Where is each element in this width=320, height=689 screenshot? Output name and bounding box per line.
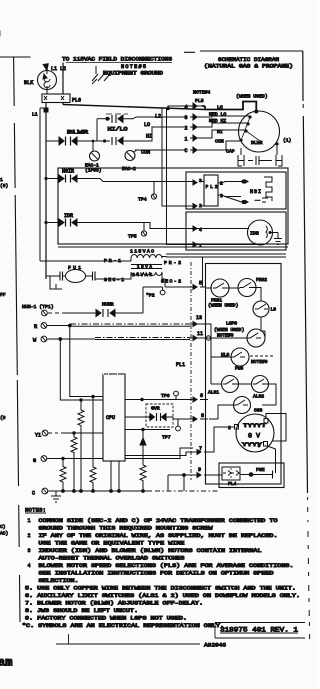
transformer TRAN primary bbox=[40, 249, 181, 267]
svg-text:G: G bbox=[33, 458, 36, 464]
svg-text:L2: L2 bbox=[155, 114, 161, 120]
pin 7 bbox=[193, 446, 214, 455]
svg-text:FRS2: FRS2 bbox=[256, 277, 267, 283]
svg-text:5. USE ONLY COPPER WIRE BETWEE: 5. USE ONLY COPPER WIRE BETWEEN THE DISC… bbox=[25, 586, 296, 592]
wire PR2/SEC2 drop bbox=[202, 257, 204, 287]
wire pin13 chain bbox=[197, 324, 231, 384]
svg-text:HI: HI bbox=[217, 129, 223, 135]
terminal C bbox=[32, 488, 48, 496]
connector PL1 boundary line bbox=[190, 262, 192, 480]
svg-text:ALS1: ALS1 bbox=[208, 390, 219, 396]
svg-text:CPU: CPU bbox=[106, 415, 115, 421]
wire pin9 lane bbox=[168, 475, 193, 491]
junction pullup row bbox=[79, 398, 82, 401]
svg-text:BLOWER MOTOR SPEED SELECTIONS: BLOWER MOTOR SPEED SELECTIONS (PLS) ARE … bbox=[39, 563, 294, 569]
svg-text:HI/LO: HI/LO bbox=[108, 127, 128, 133]
revision box bbox=[215, 623, 305, 639]
svg-text:SEE INSTALLATION INSTRUCTIONS: SEE INSTALLATION INSTRUCTIONS FOR DETAIL… bbox=[39, 571, 274, 577]
wire pin7 to GV bbox=[207, 427, 234, 452]
svg-text:INDUCER (IDM) AND BLOWER (BLWM: INDUCER (IDM) AND BLOWER (BLWM) MOTORS C… bbox=[39, 548, 262, 554]
svg-text:7. BLOWER MOTOR (BLWM) ADJUSTA: 7. BLOWER MOTOR (BLWM) ADJUSTABLE OFF-DE… bbox=[25, 601, 203, 607]
svg-text:2: 2 bbox=[228, 425, 231, 431]
svg-text:8: 8 bbox=[201, 413, 204, 419]
gas valve GV bbox=[228, 414, 274, 452]
svg-text:TP5: TP5 bbox=[128, 234, 137, 240]
wire COM to PL5 bbox=[135, 149, 186, 151]
svg-text:NOTE#4: NOTE#4 bbox=[193, 90, 210, 96]
svg-text:GVR: GVR bbox=[151, 406, 160, 412]
svg-text:3: 3 bbox=[28, 548, 31, 554]
connector PL4 bbox=[222, 467, 240, 487]
svg-text:AUTO-RESET THERMAL OVERLOAD SW: AUTO-RESET THERMAL OVERLOAD SWITCHES bbox=[39, 556, 185, 562]
svg-text:L1: L1 bbox=[32, 112, 38, 118]
wire SEC2 to HUMR bbox=[143, 287, 163, 313]
pin 13 bbox=[189, 315, 208, 327]
wire GV jumper loop bbox=[266, 414, 286, 442]
svg-text:OSS: OSS bbox=[254, 408, 263, 414]
svg-text:PL5: PL5 bbox=[195, 98, 204, 104]
svg-text:318975 401 REV. 1: 318975 401 REV. 1 bbox=[220, 627, 298, 634]
svg-text:EQUIPMENT GROUND: EQUIPMENT GROUND bbox=[103, 71, 163, 77]
capacitor CAP bbox=[226, 146, 282, 166]
svg-text:MED HI: MED HI bbox=[209, 118, 226, 124]
svg-text:LGPS: LGPS bbox=[226, 321, 237, 327]
title box top line bbox=[184, 51, 303, 52]
svg-text:W: W bbox=[33, 338, 37, 344]
svg-text:3: 3 bbox=[185, 115, 188, 121]
svg-text:(0): (0) bbox=[0, 183, 8, 189]
svg-text:am: am bbox=[0, 656, 12, 670]
svg-text:PWS: PWS bbox=[235, 366, 244, 372]
svg-text:LO: LO bbox=[144, 122, 150, 128]
wire SEC-2 to pin 5 bbox=[165, 286, 189, 288]
transformer secondary bbox=[95, 272, 181, 287]
wire MED LO bbox=[202, 116, 250, 117]
svg-text:NOTE#5: NOTE#5 bbox=[121, 64, 146, 70]
svg-text:GROUND THROUGH THIS REQUIRED M: GROUND THROUGH THIS REQUIRED MOUNTING SC… bbox=[39, 526, 213, 532]
box HSI section bbox=[186, 172, 286, 209]
connector PL6 bbox=[42, 94, 81, 104]
resistor R2 bbox=[90, 397, 96, 491]
test point TP4 bbox=[138, 182, 157, 203]
wire CPU to pin6 bbox=[125, 399, 193, 401]
svg-text:TP6: TP6 bbox=[161, 393, 170, 399]
svg-text:1: 1 bbox=[185, 137, 188, 143]
svg-text:4: 4 bbox=[199, 227, 202, 233]
svg-text:BLWR: BLWR bbox=[251, 140, 263, 146]
svg-text:GV: GV bbox=[248, 433, 260, 440]
equipment ground symbol bbox=[92, 66, 110, 84]
box FSE section bbox=[219, 463, 284, 488]
sheet bottom line bbox=[56, 634, 200, 644]
inducer motor IDM bbox=[189, 220, 282, 249]
svg-text:TO 115VAC FIELD DISCONNECTIONS: TO 115VAC FIELD DISCONNECTIONS bbox=[62, 57, 172, 63]
pin 6 bbox=[189, 393, 208, 402]
svg-text:*C. SYMBOLS ARE AN ELECTRICAL: *C. SYMBOLS ARE AN ELECTRICAL REPRESENTA… bbox=[22, 623, 224, 629]
junction below PL6 bbox=[44, 108, 49, 113]
svg-text:C): C) bbox=[0, 524, 6, 530]
wire: left bus A (to PR-1) bbox=[39, 108, 41, 261]
motor BLWR bbox=[239, 110, 280, 153]
diode D1 bbox=[140, 430, 146, 466]
svg-text:MED LO: MED LO bbox=[209, 112, 226, 118]
wire to HI/LO junctions bbox=[93, 140, 105, 142]
svg-text:BLWR: BLWR bbox=[67, 130, 88, 136]
svg-text:11: 11 bbox=[197, 331, 203, 337]
svg-text:SELECTION.: SELECTION. bbox=[39, 578, 79, 584]
svg-text:(NATURAL GAS & PROPANE): (NATURAL GAS & PROPANE) bbox=[204, 64, 293, 70]
svg-text:9. FACTORY CONNECTED WHEN LGPS: 9. FACTORY CONNECTED WHEN LGPS NOT USED. bbox=[25, 616, 187, 622]
svg-text:*P2: *P2 bbox=[146, 293, 155, 299]
svg-text:9: 9 bbox=[198, 467, 201, 473]
junction dots bottom bus bbox=[61, 489, 65, 493]
wire L1 arrow bbox=[43, 64, 57, 72]
box B1 outer bbox=[58, 168, 288, 244]
svg-text:NOTES:: NOTES: bbox=[25, 507, 46, 514]
junction R drop bbox=[68, 324, 72, 328]
svg-text:4: 4 bbox=[185, 105, 188, 111]
svg-text:IF ANY OF THE ORIGINAL WIRE, A: IF ANY OF THE ORIGINAL WIRE, AS SUPPLIED… bbox=[39, 533, 278, 539]
switch HI/LO upper contact (LO) bbox=[97, 114, 186, 133]
svg-text:PL4: PL4 bbox=[228, 481, 237, 487]
svg-text:USE THE SAME OR EQUIVALENT TYP: USE THE SAME OR EQUIVALENT TYPE WIRE bbox=[39, 541, 185, 547]
svg-text:115VAC: 115VAC bbox=[130, 249, 154, 255]
pin 11 bbox=[189, 331, 205, 341]
svg-text:8. JW3 SHOULD BE LEFT UNCUT.: 8. JW3 SHOULD BE LEFT UNCUT. bbox=[25, 608, 138, 614]
test point P2 bbox=[146, 287, 165, 299]
test point TP5 bbox=[128, 223, 147, 240]
switch OSS bbox=[209, 397, 263, 420]
pin 9 bbox=[193, 467, 212, 478]
svg-text:1: 1 bbox=[28, 518, 31, 524]
svg-text:R: R bbox=[34, 324, 38, 330]
relay contact GVR bbox=[125, 404, 193, 427]
terminal W bbox=[33, 336, 190, 343]
svg-text:SEC-1: SEC-1 bbox=[104, 277, 124, 283]
wire bus to IDM pin1 bbox=[167, 108, 190, 244]
box B2 24V section bbox=[206, 264, 282, 485]
wire CPU lower to diode bbox=[125, 429, 170, 431]
connector PL5 pins bbox=[168, 103, 202, 154]
svg-text:13: 13 bbox=[196, 315, 202, 321]
svg-text:EAC-2: EAC-2 bbox=[122, 166, 136, 172]
wire L2 bbox=[60, 63, 66, 95]
svg-text:COM: COM bbox=[141, 150, 150, 156]
flame sensor FSE bbox=[205, 467, 273, 479]
resistor R4 on G bbox=[61, 457, 64, 460]
svg-text:HSI: HSI bbox=[250, 189, 261, 195]
svg-text:TP4: TP4 bbox=[138, 197, 147, 203]
svg-text:IDR: IDR bbox=[64, 213, 73, 219]
wire bus to PL2 pin2 bbox=[162, 108, 189, 206]
wire: left bus B (to SEC-1) bbox=[45, 103, 47, 280]
svg-text:(WHEN USED): (WHEN USED) bbox=[236, 94, 268, 100]
svg-text:PL6: PL6 bbox=[72, 98, 81, 104]
junction on bus at PL5 bbox=[166, 107, 170, 111]
wire LO thick to motor bbox=[202, 102, 256, 112]
switch ALS2 bbox=[239, 376, 277, 406]
svg-text:4: 4 bbox=[28, 563, 31, 569]
plug P1 BLK bbox=[24, 71, 57, 95]
terminal G bbox=[33, 456, 103, 464]
switch FRS2 bbox=[229, 277, 267, 297]
switch LS bbox=[253, 288, 276, 332]
svg-text:2: 2 bbox=[185, 126, 188, 132]
hot surface igniter HSI bbox=[250, 177, 272, 202]
lamp EAC-1 bbox=[85, 141, 102, 174]
svg-text:HSIR: HSIR bbox=[62, 169, 74, 175]
box IDM section bbox=[186, 212, 286, 250]
relay contact HUMR bbox=[48, 302, 143, 318]
pin 8 bbox=[189, 413, 208, 422]
resistor R5 bbox=[140, 465, 146, 491]
svg-text:C: C bbox=[185, 148, 188, 154]
svg-text:Y1: Y1 bbox=[35, 433, 41, 439]
svg-text:IDM: IDM bbox=[250, 231, 259, 237]
test point TP6 bbox=[161, 391, 178, 399]
relay contact BLWR bbox=[46, 130, 93, 146]
svg-text:C: C bbox=[32, 491, 35, 497]
wire ground tail bbox=[50, 276, 62, 289]
node dots HSI wires bbox=[242, 180, 246, 184]
wire HI bbox=[202, 130, 246, 138]
svg-text:1: 1 bbox=[199, 243, 202, 249]
wire: top 115V bus bbox=[63, 103, 205, 110]
svg-text:L1: L1 bbox=[51, 66, 57, 72]
resistor R3 on Y bbox=[72, 431, 75, 434]
svg-text:2: 2 bbox=[220, 193, 223, 199]
wire R to CPU bbox=[70, 326, 103, 397]
wire GV3 to FSE bbox=[268, 446, 276, 473]
svg-text:PL2: PL2 bbox=[206, 184, 218, 190]
svg-text:AC): AC) bbox=[0, 531, 8, 537]
svg-text:5: 5 bbox=[199, 281, 202, 287]
wire COM bbox=[202, 141, 240, 150]
svg-text:19VA: 19VA bbox=[137, 265, 152, 270]
svg-text:BLK: BLK bbox=[24, 80, 34, 86]
svg-text:(WHEN USED): (WHEN USED) bbox=[214, 327, 244, 333]
svg-text:NOTE#9: NOTE#9 bbox=[251, 359, 268, 365]
svg-text:PR-2: PR-2 bbox=[164, 260, 181, 266]
svg-text:1: 1 bbox=[0, 177, 3, 183]
svg-text:(1): (1) bbox=[283, 138, 291, 144]
switch LGPS bbox=[197, 321, 265, 348]
wire CPU bottom drops bbox=[111, 461, 119, 491]
svg-text:TP7: TP7 bbox=[162, 435, 171, 441]
svg-text:6: 6 bbox=[200, 393, 203, 399]
terminal Y1 bbox=[35, 430, 103, 438]
switch HI/LO lower contact (HI) bbox=[105, 127, 186, 145]
svg-text:(WHEN USED): (WHEN USED) bbox=[208, 303, 238, 309]
connector PL2 bbox=[189, 175, 241, 209]
svg-text:HUM-1 (TP1): HUM-1 (TP1) bbox=[22, 304, 54, 310]
svg-text:FSE: FSE bbox=[256, 467, 265, 473]
wire MED HI bbox=[202, 123, 248, 127]
wire CPU to pin7 loop bbox=[125, 448, 193, 459]
switch HLS/PWS bbox=[221, 348, 273, 372]
ground symbol bbox=[51, 491, 61, 502]
control board CPU bbox=[103, 374, 125, 461]
resistor R1 bbox=[78, 400, 84, 491]
svg-text:CAP: CAP bbox=[226, 149, 235, 155]
wire W to CPU bbox=[60, 339, 103, 400]
transformer core bbox=[131, 265, 162, 269]
svg-text:A92048: A92048 bbox=[204, 642, 226, 649]
left page border bbox=[0, 56, 31, 58]
terminal HUM-1 bbox=[22, 304, 54, 316]
SECTION: notes bbox=[22, 507, 300, 630]
svg-text:ALS2: ALS2 bbox=[253, 394, 264, 400]
svg-text:TYYYT: TYYYT bbox=[243, 423, 266, 429]
svg-text:2: 2 bbox=[28, 533, 31, 539]
wire bottom common bus bbox=[48, 490, 218, 492]
svg-text:LO: LO bbox=[217, 105, 223, 111]
right page border bbox=[303, 51, 308, 493]
junction W drop bbox=[58, 337, 62, 341]
relay contact HSIR bbox=[44, 169, 189, 183]
svg-text:PL1: PL1 bbox=[176, 362, 185, 368]
svg-text:COMMON SIDE (SEC-2 AND C) OF 2: COMMON SIDE (SEC-2 AND C) OF 24VAC TRANS… bbox=[39, 518, 278, 524]
switch FRS1 bbox=[206, 279, 238, 309]
svg-text:COM: COM bbox=[215, 139, 224, 145]
switch ALS1 bbox=[208, 376, 239, 396]
svg-text:FF: FF bbox=[0, 292, 6, 298]
svg-text:(D: (D bbox=[0, 415, 6, 421]
svg-text:SCHEMATIC DIAGRAM: SCHEMATIC DIAGRAM bbox=[218, 57, 279, 63]
box B1 inner bottom double lines bbox=[58, 247, 288, 257]
test point TP7 bbox=[162, 419, 180, 441]
relay contact IDR bbox=[44, 213, 189, 229]
terminal R bbox=[34, 323, 190, 330]
svg-text:3: 3 bbox=[258, 443, 261, 449]
svg-text:LS: LS bbox=[271, 307, 277, 313]
svg-text:6. AUXILIARY LIMIT SWITCHES (A: 6. AUXILIARY LIMIT SWITCHES (ALS1 & 2) U… bbox=[25, 593, 300, 599]
pin 5 bbox=[189, 281, 206, 290]
junction EAC-1 branch bbox=[92, 140, 95, 143]
lamp EAC-2 bbox=[122, 150, 137, 172]
fuse FU1 bbox=[46, 265, 95, 283]
svg-text:HUMR: HUMR bbox=[102, 302, 114, 308]
svg-text:HI: HI bbox=[146, 134, 152, 140]
